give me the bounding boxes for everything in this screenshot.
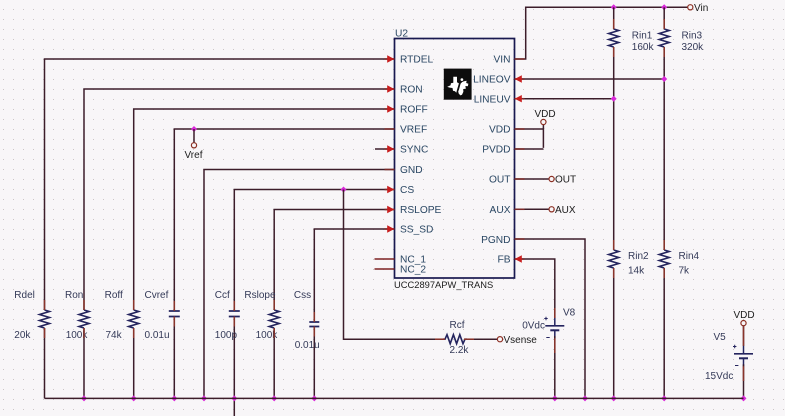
capacitor Ccf xyxy=(229,311,240,317)
svg-text:RON: RON xyxy=(400,85,423,96)
junction Vin-Rin3 xyxy=(661,4,667,10)
pin arrow LINEUV xyxy=(515,95,522,102)
svg-text:20k: 20k xyxy=(14,330,31,341)
wire Rin3 to Rin4 xyxy=(663,47,665,250)
wire VIN net top xyxy=(515,7,688,59)
wire Ccf bottom xyxy=(233,317,235,416)
voltage source V8 xyxy=(544,317,564,339)
wire SS_SD net xyxy=(314,229,394,322)
wire V5 bottom xyxy=(743,364,745,398)
resistor Rin4 xyxy=(659,250,669,268)
svg-text:PGND: PGND xyxy=(481,235,510,246)
wire RTDEL net xyxy=(45,59,395,310)
op-amp U2 body UCC2897APW_TRANS xyxy=(395,39,515,279)
junction CS-Rcf xyxy=(341,187,347,193)
svg-text:74k: 74k xyxy=(106,330,123,341)
svg-text:PVDD: PVDD xyxy=(482,145,510,156)
svg-text:UCC2897APW_TRANS: UCC2897APW_TRANS xyxy=(394,280,493,290)
svg-text:SYNC: SYNC xyxy=(400,145,428,156)
pin arrow SYNC xyxy=(387,145,394,152)
pin arrow ROFF xyxy=(387,105,394,112)
port VDD (V5) xyxy=(741,321,746,326)
svg-text:U2: U2 xyxy=(395,29,408,40)
wire V5 top xyxy=(743,326,745,346)
resistor Ron xyxy=(79,310,89,328)
svg-text:LINEOV: LINEOV xyxy=(473,75,511,86)
pin arrow FB xyxy=(515,255,522,262)
wire Cvref bottom xyxy=(173,317,175,399)
pin arrow LINEOV xyxy=(515,75,522,82)
wire VDD port stub xyxy=(542,125,544,130)
wire ground bus xyxy=(45,397,744,399)
pin arrow SS_SD xyxy=(387,225,394,232)
port AUX xyxy=(549,207,554,212)
wire VDD net xyxy=(515,129,544,148)
junction bus-Rslope xyxy=(271,395,277,401)
wire CS net xyxy=(234,190,394,312)
svg-text:LINEUV: LINEUV xyxy=(474,94,511,105)
capacitor Cvref xyxy=(169,311,180,317)
wire Css bottom xyxy=(313,327,315,399)
svg-text:AUX: AUX xyxy=(555,205,576,216)
pin stub SYNC xyxy=(375,148,395,150)
pin stub NC_2 xyxy=(375,268,395,270)
junction bus-Ccf xyxy=(231,395,237,401)
component pin leads (red) xyxy=(45,19,744,381)
resistor Rin2 xyxy=(609,250,619,268)
svg-text:100k: 100k xyxy=(66,330,89,341)
wire PGND net xyxy=(515,239,586,398)
port VDD (U2) xyxy=(541,119,546,124)
wire Rin3 column top xyxy=(663,7,665,29)
svg-text:15Vdc: 15Vdc xyxy=(705,371,733,382)
svg-text:7k: 7k xyxy=(679,266,691,277)
svg-text:Css: Css xyxy=(294,290,311,301)
svg-text:Ron: Ron xyxy=(65,290,83,301)
wire VREF net xyxy=(174,129,394,311)
svg-text:OUT: OUT xyxy=(489,175,511,186)
svg-text:320k: 320k xyxy=(682,42,705,53)
junction VREF-Vref xyxy=(191,126,197,132)
wire Rin1 to Rin2 xyxy=(613,47,615,250)
wire Rin2 bottom xyxy=(613,268,615,398)
svg-text:Rin4: Rin4 xyxy=(679,251,700,262)
wire ROFF net xyxy=(134,109,395,310)
junction bus-Rin4 xyxy=(661,395,667,401)
wire OUT net xyxy=(515,178,550,180)
junction bus-V5 xyxy=(741,395,747,401)
svg-text:V5: V5 xyxy=(714,332,727,343)
junction LINEUV-Rin1 xyxy=(611,96,617,102)
svg-text:Rdel: Rdel xyxy=(14,290,35,301)
svg-text:VDD: VDD xyxy=(535,109,556,120)
wire LINEUV net xyxy=(515,98,614,100)
svg-text:NC_2: NC_2 xyxy=(400,265,426,276)
svg-text:OUT: OUT xyxy=(555,175,576,186)
port Vsense xyxy=(497,337,502,342)
svg-text:ROFF: ROFF xyxy=(400,105,428,116)
wire Ron bottom xyxy=(83,328,85,398)
svg-text:Ccf: Ccf xyxy=(215,290,230,301)
svg-text:0Vdc: 0Vdc xyxy=(522,321,545,332)
wire Rdel bottom xyxy=(44,328,46,398)
junction LINEOV-Rin3 xyxy=(661,76,667,82)
svg-text:VIN: VIN xyxy=(494,55,511,66)
junction bus-Ron xyxy=(81,395,87,401)
wire Rslope bottom xyxy=(273,328,275,398)
svg-text:VDD: VDD xyxy=(489,125,511,136)
svg-text:Rin2: Rin2 xyxy=(628,251,649,262)
wire FB net xyxy=(515,259,555,318)
wire Rin1 column top xyxy=(613,7,615,29)
resistor Rcf xyxy=(443,335,467,344)
voltage source V5 xyxy=(733,345,753,367)
wire RSLOPE net xyxy=(274,210,394,311)
svg-text:Vin: Vin xyxy=(694,3,708,14)
port Vref xyxy=(191,143,196,148)
junction bus-V8 xyxy=(552,395,558,401)
U2 pin stubs xyxy=(385,59,525,259)
svg-text:100p: 100p xyxy=(215,330,238,341)
svg-text:VDD: VDD xyxy=(734,310,755,321)
svg-text:SS_SD: SS_SD xyxy=(400,225,433,236)
svg-text:Rslope: Rslope xyxy=(244,290,276,301)
wire Roff bottom xyxy=(133,328,135,398)
svg-text:Roff: Roff xyxy=(105,290,123,301)
svg-text:Rin1: Rin1 xyxy=(632,31,653,42)
resistor Rin1 xyxy=(609,29,619,47)
svg-text:RTDEL: RTDEL xyxy=(400,55,434,66)
port OUT xyxy=(549,176,554,181)
wire LINEOV net xyxy=(515,78,665,80)
capacitor Css xyxy=(309,322,319,327)
wire Rin4 bottom xyxy=(663,268,665,398)
wire PVDD net xyxy=(515,148,544,150)
wire RON net xyxy=(84,89,395,310)
resistor Roff xyxy=(129,310,139,328)
wire CS to Rcf xyxy=(344,190,444,340)
svg-text:160k: 160k xyxy=(632,42,655,53)
pin stub NC_1 xyxy=(375,258,395,260)
junction bus-Roff xyxy=(131,395,137,401)
svg-text:2.2k: 2.2k xyxy=(450,345,470,356)
wire V8 bottom xyxy=(554,336,556,398)
svg-text:V8: V8 xyxy=(563,308,576,319)
wire AUX net xyxy=(515,208,550,210)
resistor Rin3 xyxy=(659,29,669,47)
pin arrow RTDEL xyxy=(387,55,394,62)
junction bus-Rin2 xyxy=(611,395,617,401)
svg-text:0.01u: 0.01u xyxy=(295,340,320,351)
TI logo xyxy=(444,69,472,100)
svg-text:Vref: Vref xyxy=(185,150,203,161)
junction bus-Css xyxy=(311,395,317,401)
svg-text:Rcf: Rcf xyxy=(450,320,465,331)
svg-text:GND: GND xyxy=(400,165,423,176)
pin arrow RSLOPE xyxy=(387,206,394,213)
pin arrow RON xyxy=(387,85,394,92)
svg-text:VREF: VREF xyxy=(400,125,427,136)
junction bus-Cvref xyxy=(171,395,177,401)
resistor Rslope xyxy=(269,310,279,328)
svg-text:Rin3: Rin3 xyxy=(682,31,703,42)
svg-text:FB: FB xyxy=(497,255,510,266)
wire Vref port stub xyxy=(193,129,195,143)
port Vin xyxy=(688,5,693,10)
wire GND net xyxy=(204,170,395,399)
svg-text:CS: CS xyxy=(400,185,414,196)
svg-text:Cvref: Cvref xyxy=(145,290,169,301)
svg-text:0.01u: 0.01u xyxy=(145,330,170,341)
svg-text:Vsense: Vsense xyxy=(504,335,538,346)
junction Vin-Rin1 xyxy=(611,4,617,10)
junction bus-PGND xyxy=(582,395,588,401)
wire Rcf to Vsense xyxy=(467,338,497,340)
svg-text:AUX: AUX xyxy=(490,205,511,216)
junction bus-GND xyxy=(201,395,207,401)
resistor Rdel xyxy=(40,310,50,328)
pin arrow CS xyxy=(387,186,394,193)
svg-text:RSLOPE: RSLOPE xyxy=(400,205,442,216)
svg-text:14k: 14k xyxy=(628,266,645,277)
